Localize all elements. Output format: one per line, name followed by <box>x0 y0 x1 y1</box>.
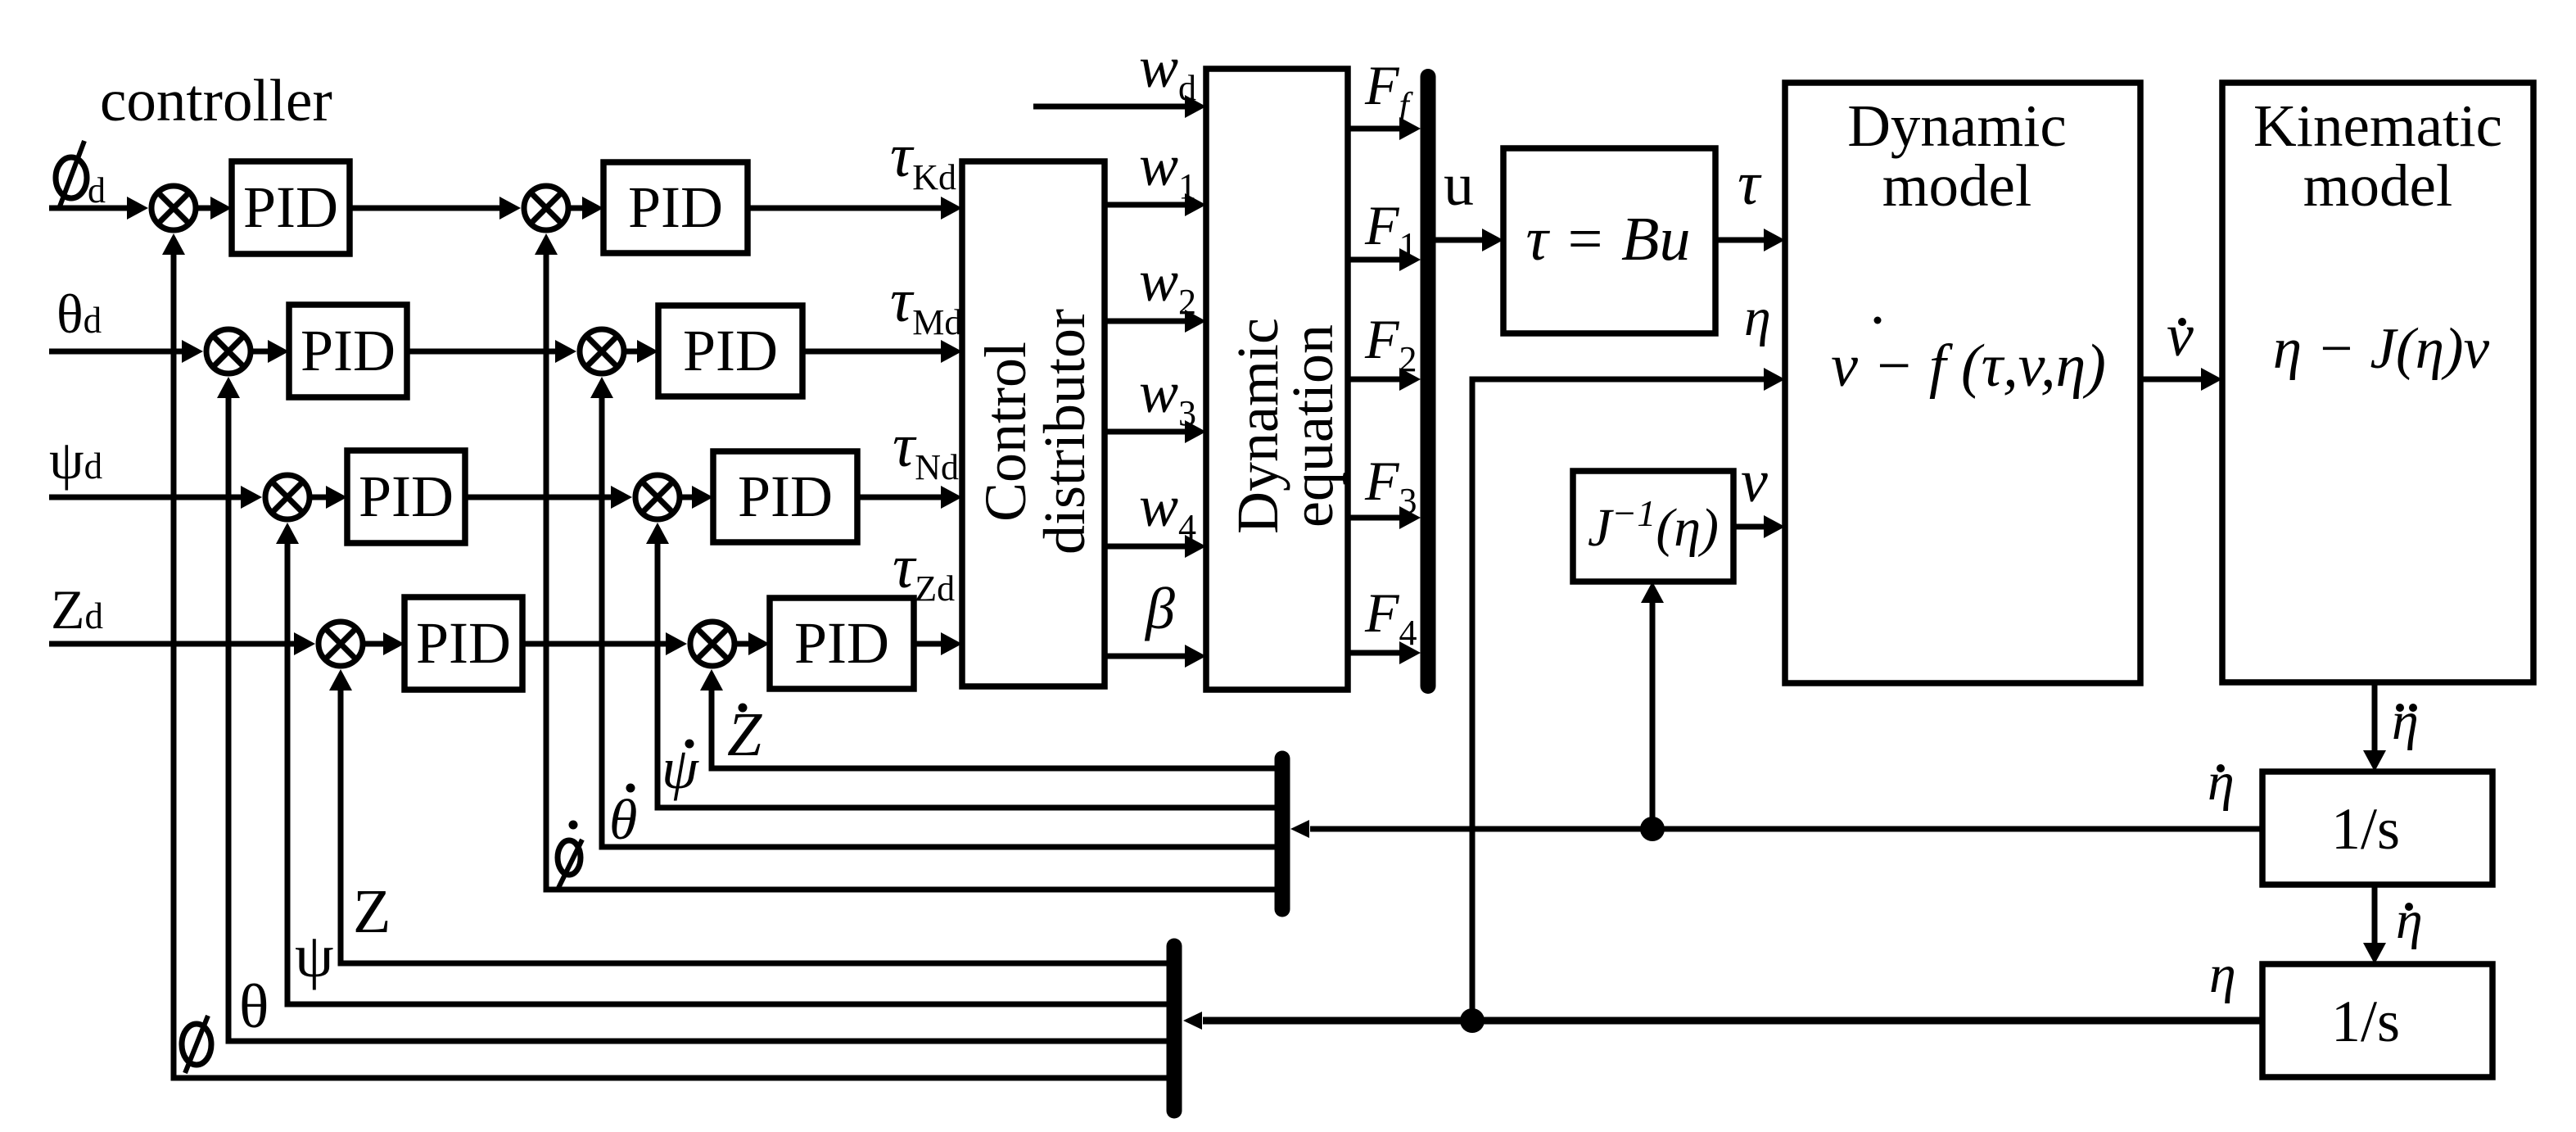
wire v-dot <box>2140 368 2222 391</box>
block PID5 <box>603 162 748 253</box>
svg-text:PID: PID <box>738 464 833 529</box>
wire psi feedback to S3 <box>276 523 1167 1004</box>
svg-text:1/s: 1/s <box>2331 796 2400 862</box>
svg-text:PID: PID <box>359 464 454 529</box>
block PID1 <box>232 161 350 254</box>
node eta-dot label at integrator 1 <box>2208 752 2235 812</box>
svg-text:τ = Bu: τ = Bu <box>1526 205 1691 274</box>
block integrator 1/s (first) <box>2262 772 2492 885</box>
svg-text:η: η <box>2396 890 2423 950</box>
wire theta feedback to S2 <box>217 377 1167 1041</box>
svg-text:η − J(η)v: η − J(η)v <box>2273 317 2490 381</box>
svg-text:θ: θ <box>609 789 637 852</box>
node phi label <box>182 1016 211 1073</box>
svg-text:β: β <box>1144 576 1175 641</box>
wire F_4 <box>1348 641 1421 664</box>
bus bar position feedback <box>1167 946 1182 1111</box>
svg-text:d: d <box>88 170 106 211</box>
wire PID4 to S8 <box>522 632 687 655</box>
summer S6 (theta rate) <box>580 329 624 374</box>
wire S4 to PID4 <box>365 632 404 655</box>
wire beta <box>1105 645 1206 668</box>
wire w_1 <box>1105 193 1206 216</box>
wire S8 to PID8 <box>737 632 770 655</box>
block Kinematic model <box>2222 83 2533 682</box>
block PID2 <box>289 305 407 397</box>
wire eta-dot into J-inverse <box>1641 582 1664 829</box>
bus bar collecting forces <box>1421 77 1436 686</box>
wire tau <box>1715 229 1785 251</box>
wire PID8 to control distributor (tau_Zd) <box>914 632 962 655</box>
wire phi feedback to S1 <box>162 233 1167 1078</box>
wire theta-dot feedback to S6 <box>590 377 1275 847</box>
wire F_f <box>1348 117 1421 140</box>
svg-text:PID: PID <box>416 610 511 676</box>
wire S7 to PID7 <box>682 486 713 509</box>
svg-text:controller: controller <box>100 67 332 134</box>
svg-text:v: v <box>1741 448 1768 515</box>
wire Z feedback to S4 <box>329 669 1167 963</box>
wire PID3 to S7 <box>465 486 632 509</box>
node eta-double-dot label <box>2392 691 2419 751</box>
svg-text:u: u <box>1444 152 1474 219</box>
svg-text:η: η <box>2209 944 2236 1004</box>
svg-text:η: η <box>2208 752 2235 812</box>
wire v from J-inverse to dynamic model <box>1733 515 1785 538</box>
wire eta-double-dot from kinematic model to integrator 1 <box>2363 683 2386 772</box>
wire eta feedback to position bus <box>1183 1012 2262 1030</box>
block PID8 <box>770 598 914 689</box>
bus bar derivative feedback <box>1275 758 1290 909</box>
summer S3 (psi) <box>265 475 310 519</box>
wire F_1 <box>1348 248 1421 271</box>
summer S8 (Z rate) <box>690 622 734 666</box>
svg-text:PID: PID <box>628 174 723 240</box>
wire eta feedback into dynamic model <box>1472 368 1785 1021</box>
block J-inverse <box>1573 471 1733 582</box>
node psi-dot label <box>662 736 699 801</box>
svg-text:η: η <box>1744 288 1771 347</box>
svg-text:Dynamic: Dynamic <box>1847 93 2067 159</box>
block integrator 1/s (second) <box>2262 964 2492 1077</box>
wire F_3 <box>1348 506 1421 529</box>
svg-text:PID: PID <box>301 318 395 383</box>
wire u <box>1435 229 1503 251</box>
wire PID7 to control distributor (tau_Nd) <box>857 486 962 509</box>
block tau=Bu <box>1503 148 1715 333</box>
svg-text:PID: PID <box>794 610 889 676</box>
block Control distributor <box>962 161 1105 686</box>
wire S5 to PID5 <box>571 197 603 220</box>
svg-text:model: model <box>1882 152 2031 219</box>
svg-text:θ: θ <box>239 972 269 1041</box>
wire w_3 <box>1105 420 1206 443</box>
node v-dot label <box>2167 302 2194 369</box>
block PID6 <box>658 306 802 396</box>
node phi_d input label <box>56 141 106 211</box>
svg-text:model: model <box>2303 152 2452 219</box>
junction dot on eta-dot line <box>1640 817 1665 841</box>
wire PID6 to control distributor (tau_Md) <box>802 340 962 363</box>
wire S6 to PID6 <box>626 340 658 363</box>
summer S7 (psi rate) <box>635 475 680 519</box>
svg-text:η: η <box>2392 691 2419 751</box>
wire psi-dot feedback to S7 <box>646 523 1275 808</box>
wire S3 to PID3 <box>312 486 347 509</box>
wire w_4 <box>1105 535 1206 558</box>
svg-text:distributor: distributor <box>1032 309 1097 555</box>
node eta-dot label between integrators <box>2396 890 2423 950</box>
svg-text:Kinematic: Kinematic <box>2253 93 2502 159</box>
wire theta_d input <box>49 340 203 363</box>
summer S2 (theta) <box>206 329 251 374</box>
wire psi_d input <box>49 486 262 509</box>
wire PID2 to S6 <box>407 340 576 363</box>
node theta-dot label <box>609 784 637 853</box>
svg-text:v: v <box>2167 302 2194 369</box>
wire phi_d input <box>49 197 148 220</box>
block Dynamic equation <box>1206 69 1348 690</box>
wire eta-dot from integrator 1 to integrator 2 <box>2363 885 2386 964</box>
wire w_d input <box>1033 95 1206 118</box>
wire w_2 <box>1105 310 1206 333</box>
wire PID1 to S5 <box>350 197 521 220</box>
junction dot on eta line <box>1460 1008 1485 1033</box>
wire S2 to PID2 <box>253 340 289 363</box>
wire F_2 <box>1348 368 1421 391</box>
block Dynamic model <box>1785 83 2140 683</box>
svg-text:Z: Z <box>353 877 391 946</box>
svg-text:ψ: ψ <box>295 921 334 990</box>
wire PID5 to control distributor (tau_Kd) <box>748 197 962 220</box>
wire S1 to PID1 <box>198 197 232 220</box>
block PID7 <box>713 451 857 542</box>
svg-text:equation: equation <box>1280 324 1345 528</box>
block PID3 <box>347 451 465 543</box>
svg-text:Control: Control <box>973 342 1038 522</box>
wire eta-dot feedback to derivative bus <box>1290 820 2262 838</box>
svg-text:1/s: 1/s <box>2331 989 2400 1054</box>
svg-text:PID: PID <box>243 174 338 240</box>
svg-text:PID: PID <box>683 318 778 383</box>
svg-text:τ: τ <box>1738 149 1762 218</box>
svg-text:v − f (τ,v,η): v − f (τ,v,η) <box>1831 333 2106 400</box>
wire Z-dot feedback to S8 <box>700 669 1275 768</box>
wire phi-dot feedback to S5 <box>535 233 1275 890</box>
node phi-dot label <box>558 821 582 889</box>
summer S4 (Z) <box>319 622 363 666</box>
block PID4 <box>404 597 522 690</box>
node Z-dot label <box>727 700 762 769</box>
summer S5 (phi rate) <box>524 186 568 230</box>
summer S1 (phi) <box>151 186 196 230</box>
wire Z_d input <box>49 632 315 655</box>
